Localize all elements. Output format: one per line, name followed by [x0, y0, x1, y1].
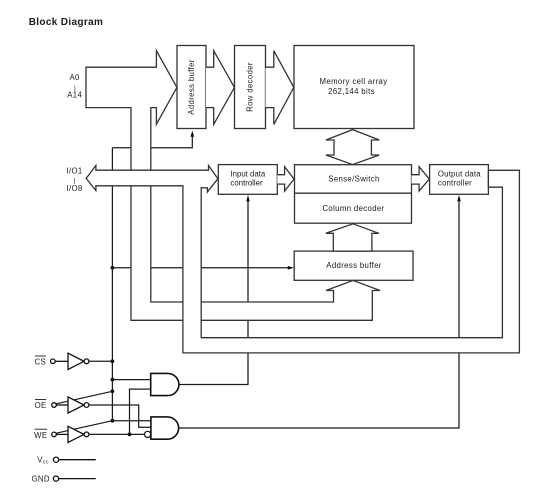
node: WE line / AND1 in2 junction	[128, 433, 132, 437]
arrowheads (filled)	[191, 131, 461, 270]
block: Input data controller	[218, 165, 277, 195]
wire: AND1 input 1	[112, 379, 150, 381]
fat arrow: Input data controller to Sense/Switch	[277, 167, 294, 191]
wire: select line to Address buffer 1 (corner + vertical)	[112, 135, 192, 148]
svg-text:Sense/Switch: Sense/Switch	[328, 174, 379, 183]
wire: AND2 input 1	[112, 420, 150, 422]
junction dots	[111, 266, 132, 436]
fat arrow: Address buffer 1 to Row decoder	[206, 51, 234, 125]
block: Output data controller	[430, 165, 489, 195]
wire: OE pin diagonal to bus	[56, 391, 112, 404]
svg-text:Address buffer: Address buffer	[326, 261, 382, 270]
wire: AND2 input 2 from OE corner	[89, 405, 151, 427]
svg-text:I/O1: I/O1	[66, 166, 82, 175]
svg-text:controller: controller	[438, 179, 472, 188]
bus: I/O1-I/O8 data bus with output return path	[86, 166, 519, 353]
fat arrow: Row decoder to Memory cell array	[266, 51, 294, 125]
inverter CS	[51, 353, 89, 369]
diagonals from input pins	[56, 391, 112, 433]
svg-text:Block Diagram: Block Diagram	[29, 17, 104, 28]
fat arrow: Sense/Switch to Output data controller	[412, 167, 430, 191]
wire: CS bus vertical x=112.4	[111, 148, 113, 421]
arrowhead into Address buffer 2 left	[288, 266, 294, 270]
svg-text:Input data: Input data	[231, 170, 266, 179]
svg-text:WE: WE	[34, 431, 47, 440]
GND terminal	[53, 476, 95, 481]
wire: AND1 output to Input data controller	[179, 200, 248, 385]
AND gate G2 (output enable) with bubble	[145, 417, 179, 439]
node: CS bus / AB2 select	[111, 266, 115, 270]
wire: AND1 input 2 from WE vertical	[130, 389, 151, 434]
node: CS inverter output junction	[111, 359, 115, 363]
svg-text:Row decoder: Row decoder	[246, 62, 255, 112]
svg-text:262,144 bits: 262,144 bits	[328, 87, 375, 96]
up arrow: Address buffer 2 to Column decoder	[326, 224, 379, 251]
wire: select line to Address buffer 2	[112, 267, 288, 269]
block: Address buffer U1	[177, 46, 206, 129]
inverter WE	[52, 426, 89, 442]
block: Address buffer U2	[294, 251, 413, 280]
block: Row decoder	[235, 46, 266, 129]
svg-text:A14: A14	[67, 91, 82, 100]
arrowhead into Input data controller bottom	[246, 195, 250, 201]
node: OE diagonal junction	[111, 389, 115, 393]
svg-text:Address buffer: Address buffer	[187, 59, 196, 115]
wire: WE inverter output to AND2 bubble	[89, 433, 144, 435]
svg-text:controller: controller	[231, 179, 263, 188]
block: Sense/Switch + Column decoder	[295, 165, 412, 224]
svg-text:I/O8: I/O8	[66, 184, 82, 193]
svg-text:A0: A0	[69, 73, 80, 82]
bus: A0-A14 address bus with branch to Address buffer 2	[86, 51, 380, 321]
block: Memory cell array	[294, 46, 414, 129]
node: AND1 in1 junction	[111, 378, 115, 382]
svg-text:Column decoder: Column decoder	[322, 204, 384, 213]
inverter OE	[52, 397, 89, 413]
svg-text:GND: GND	[32, 475, 50, 484]
Vcc terminal	[53, 457, 95, 462]
svg-text:Output data: Output data	[438, 170, 481, 179]
arrowhead into Output data controller bottom	[457, 195, 461, 201]
arrowhead into Address buffer 1 bottom	[191, 131, 195, 137]
node: WE diagonal / AND2 in1 junction	[111, 419, 115, 423]
AND gate G1 (write enable)	[151, 373, 179, 395]
svg-text:OE: OE	[35, 401, 47, 410]
double arrow: Memory cell array / Sense-Switch	[326, 130, 379, 165]
wire: WE pin diagonal to bus	[56, 421, 112, 434]
svg-text:CS: CS	[35, 357, 47, 366]
svg-text:Memory cell array: Memory cell array	[320, 77, 388, 86]
wire: AND2 output to Output data controller	[179, 200, 459, 428]
wire: CS inverter output	[89, 360, 112, 362]
